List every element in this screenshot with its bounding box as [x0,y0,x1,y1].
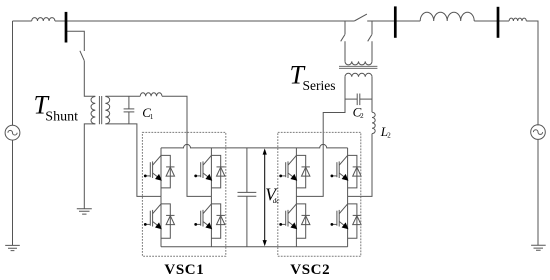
svg-text:VSC2: VSC2 [290,262,330,278]
svg-text:1: 1 [150,113,154,121]
svg-text:2: 2 [387,132,391,140]
svg-text:2: 2 [360,112,364,120]
svg-text:Series: Series [303,78,336,93]
svg-text:Shunt: Shunt [45,109,78,124]
svg-text:dc: dc [273,197,281,205]
svg-text:VSC1: VSC1 [164,262,204,278]
